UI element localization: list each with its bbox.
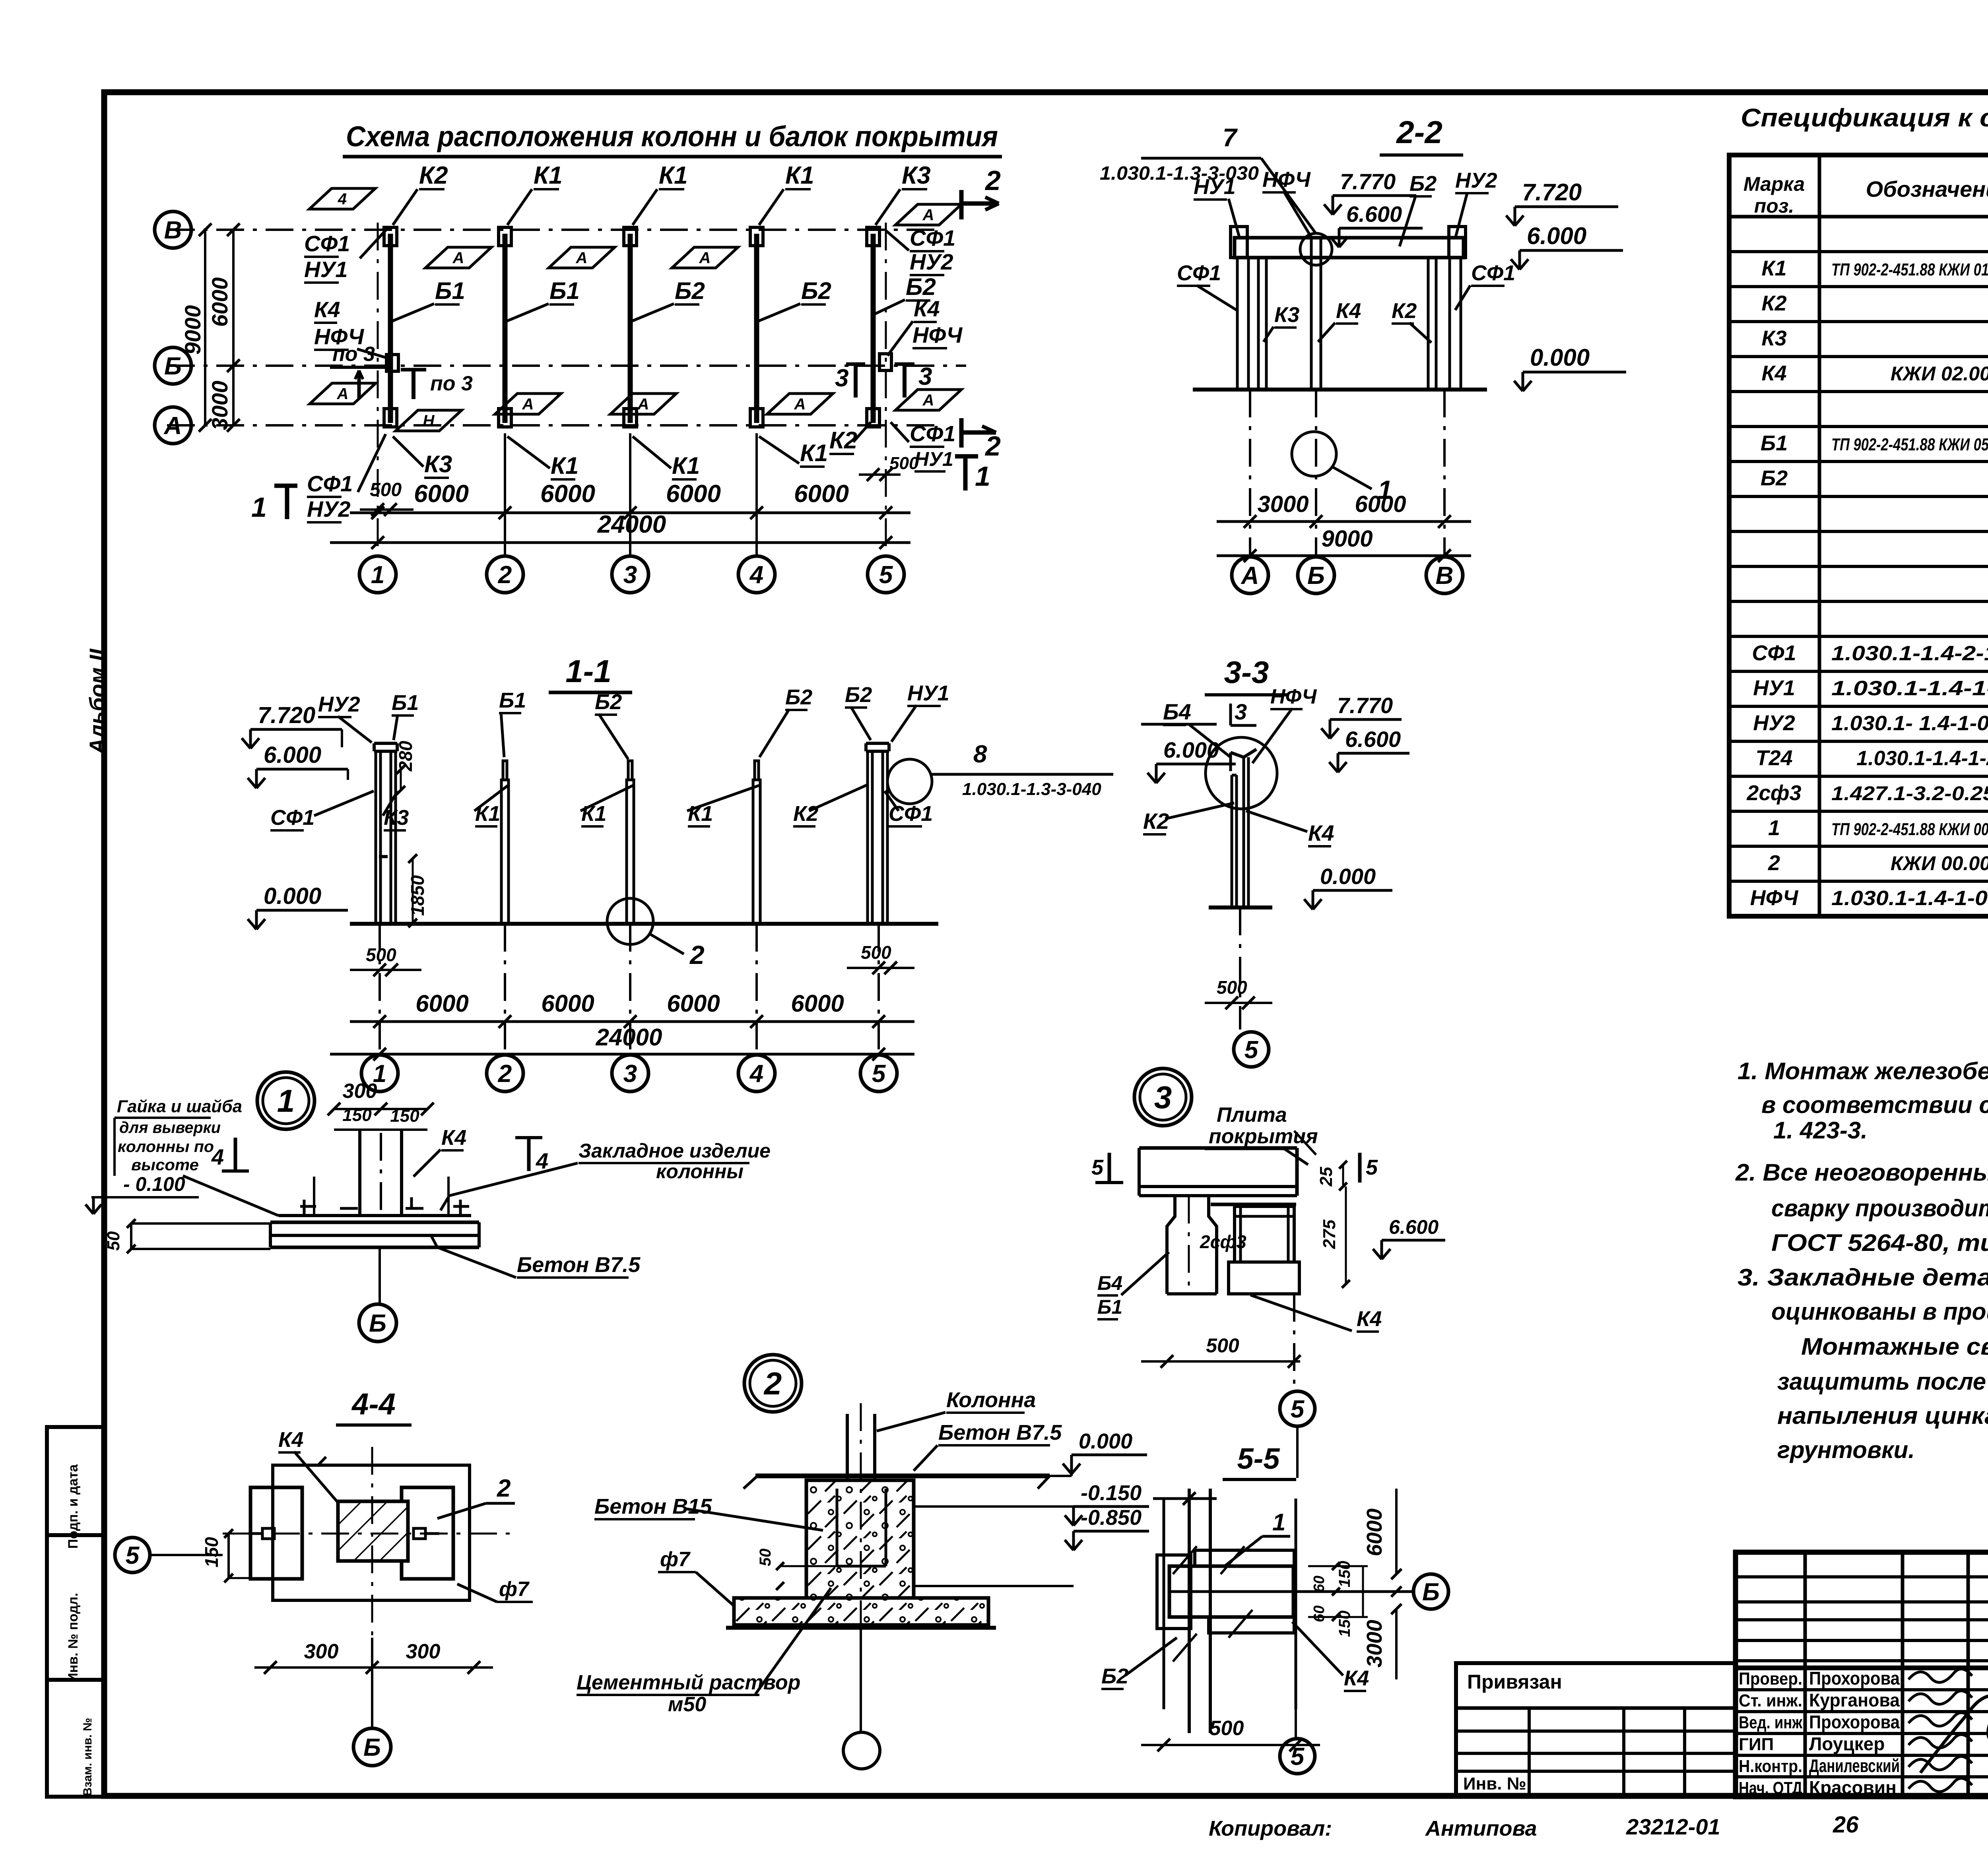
svg-text:150: 150 [201, 1537, 222, 1567]
svg-text:НУ1: НУ1 [304, 257, 348, 282]
svg-text:К3: К3 [1761, 326, 1786, 350]
svg-text:Н.контр.: Н.контр. [1739, 1757, 1802, 1776]
detail 2 level -0.850 [914, 1506, 1149, 1586]
svg-text:А: А [163, 412, 182, 440]
svg-text:К1: К1 [672, 452, 700, 479]
spec row К4 [1761, 361, 1988, 385]
detail 3 centerline down [1293, 1294, 1295, 1390]
svg-text:НФЧ: НФЧ [912, 322, 963, 347]
svg-text:Б1: Б1 [1097, 1296, 1122, 1318]
section 2-2 centerline Б [1315, 390, 1317, 556]
svg-text:6000: 6000 [207, 277, 232, 327]
svg-text:Красовин: Красовин [1809, 1777, 1897, 1798]
section 1-1 label Б1 a [392, 691, 419, 740]
spec table grid [1729, 155, 1988, 916]
spec row К1 [1761, 256, 1988, 280]
svg-text:3: 3 [918, 363, 932, 390]
svg-text:Б4: Б4 [1097, 1272, 1122, 1294]
notes line 12 [1777, 1437, 1915, 1463]
svg-text:300: 300 [406, 1640, 441, 1663]
notes line 10 [1777, 1368, 1988, 1395]
plan label beam Б2 axis 4 [758, 277, 831, 321]
svg-text:Привязан: Привязан [1467, 1671, 1562, 1693]
svg-text:СФ1: СФ1 [910, 421, 955, 446]
svg-text:500: 500 [889, 454, 919, 473]
svg-text:К4: К4 [1336, 299, 1361, 323]
detail 4-4 outer rect [273, 1457, 470, 1600]
spec row Б2 [1761, 466, 1988, 490]
svg-text:26: 26 [1833, 1812, 1859, 1838]
section 1-1 centerline axis 5 [878, 924, 880, 1049]
svg-text:НУ1: НУ1 [914, 448, 953, 470]
detail 3 dim 25 [1316, 1161, 1347, 1190]
plan column К4 at Б axis1 [386, 355, 398, 371]
detail 5-5 dim 6000 [1363, 1489, 1402, 1579]
svg-text:7.720: 7.720 [258, 702, 315, 728]
plan label К3 top axis 5 [876, 162, 931, 225]
svg-text:6000: 6000 [667, 990, 720, 1017]
svg-text:К1: К1 [475, 802, 500, 826]
section 1-1 label Б2 a [595, 690, 628, 759]
detail 4-4 dim 300 300 [254, 1640, 493, 1674]
svg-text:Т24: Т24 [1755, 746, 1792, 770]
svg-text:Б2: Б2 [595, 690, 622, 714]
svg-text:1: 1 [371, 561, 384, 589]
svg-text:1-1: 1-1 [565, 653, 612, 689]
section 2-2 label НФЧ [1262, 168, 1312, 238]
section 1-1 label К1 c [687, 785, 760, 826]
svg-text:НУ2: НУ2 [318, 692, 360, 716]
svg-text:4: 4 [749, 561, 763, 589]
section 2-2 label К4 [1318, 299, 1361, 342]
svg-text:6000: 6000 [540, 480, 595, 508]
spec table title [1741, 103, 1988, 161]
svg-text:НУ1: НУ1 [1194, 175, 1236, 199]
plan weld mark at 1618 [610, 394, 676, 414]
svg-text:2сф3: 2сф3 [1746, 781, 1801, 805]
svg-text:А: А [699, 249, 711, 267]
section 1-1 level 0.000 [248, 883, 348, 929]
plan label СФ1/НУ2 bottom-left [307, 434, 386, 522]
section 1-1 axis circle 3 [612, 1055, 648, 1092]
section 2-2 label К3 [1264, 303, 1299, 342]
section 2-2 axis circle Б [1298, 557, 1334, 593]
svg-text:Бетон В7.5: Бетон В7.5 [938, 1421, 1062, 1444]
plan label К1 bottom axis 3 [633, 436, 700, 479]
section 1-1 centerline axis 3 [629, 924, 631, 1049]
svg-text:Б: Б [363, 1734, 381, 1761]
copied by line [1209, 1812, 1988, 1840]
plan section mark 3 left axis5 [835, 364, 865, 397]
svg-text:7: 7 [1223, 123, 1238, 152]
svg-text:2: 2 [984, 430, 1001, 461]
plan axis centerline 5 [885, 223, 887, 556]
svg-text:сварку производить электрода: сварку производить электродами типа Э-42… [1771, 1195, 1988, 1222]
svg-text:К3: К3 [902, 162, 931, 189]
detail 4-4 circle 5 [115, 1538, 223, 1572]
svg-text:6000: 6000 [1355, 491, 1406, 517]
plan axis circle 3 [612, 556, 648, 593]
section 3-3 level 6.600 [1329, 727, 1409, 772]
detail 3 section mark 5 right [1360, 1153, 1378, 1183]
svg-text:СФ1: СФ1 [304, 231, 350, 256]
section 1-1 label СФ1 left [270, 791, 374, 830]
svg-text:Нач. ОТД: Нач. ОТД [1739, 1778, 1802, 1798]
svg-text:Обозначение: Обозначение [1866, 176, 1988, 202]
svg-text:НФЧ: НФЧ [1270, 685, 1317, 708]
svg-text:1: 1 [975, 461, 990, 492]
section 1-1 dim 500 left [350, 944, 421, 976]
detail 1 marker circle [257, 1072, 315, 1129]
section 1-1 label НУ1 [891, 681, 949, 742]
section 1-1 centerline axis 2 [504, 924, 506, 1049]
svg-text:Спецификация к схеме распол: Спецификация к схеме расположения колонн… [1741, 103, 1988, 132]
svg-text:Плита: Плита [1217, 1103, 1287, 1127]
svg-text:1.427.1-3.2-0.25.0-02: 1.427.1-3.2-0.25.0-02 [1831, 782, 1988, 805]
section 1-1 title [549, 653, 632, 692]
detail 1 label Закладное изделие [441, 1140, 771, 1210]
bottom-left filing stamp [47, 1427, 104, 1797]
svg-text:1.030.1-1.4-1- 020: 1.030.1-1.4-1- 020 [1831, 677, 1988, 700]
detail 3 marker circle [1134, 1068, 1192, 1126]
svg-text:60: 60 [1311, 1605, 1328, 1622]
svg-text:0.000: 0.000 [264, 883, 321, 909]
svg-text:НУ1: НУ1 [1753, 676, 1795, 700]
svg-text:НФЧ: НФЧ [1262, 168, 1311, 192]
section 1-1 centerline axis 4 [755, 924, 758, 1049]
svg-text:в соответствии со СНиП III-1: в соответствии со СНиП III-16-80, указан… [1761, 1092, 1988, 1118]
svg-text:К1: К1 [534, 162, 563, 189]
svg-text:А: А [522, 396, 534, 413]
detail 4-4 label ф7 [457, 1578, 533, 1602]
detail 5-5 label Б2 [1101, 1638, 1177, 1689]
svg-text:Схема расположения колонн и: Схема расположения колонн и балок покрыт… [346, 121, 998, 153]
plan label СФ1/НУ1 bottom-right [891, 421, 955, 471]
svg-text:Н: Н [423, 412, 435, 430]
svg-text:для выверки: для выверки [119, 1119, 221, 1136]
plan label СФ1/НУ2 top-right [886, 225, 955, 275]
svg-text:К2: К2 [1761, 291, 1786, 315]
detail 2 floor line [744, 1476, 1050, 1489]
section 1-1 detail 8 [887, 741, 1113, 804]
svg-text:К4: К4 [1344, 1666, 1369, 1690]
section 3-3 level 7.770 [1321, 693, 1402, 739]
section 2-2 detail circle top [1300, 233, 1332, 265]
svg-text:К4: К4 [1761, 361, 1786, 385]
svg-text:6000: 6000 [794, 480, 849, 508]
section 3-3 ground line [1209, 905, 1272, 909]
plan beam Б1 at axis 1 [388, 234, 393, 423]
plan column top at axis 2 [499, 227, 511, 246]
svg-text:6000: 6000 [541, 990, 594, 1017]
svg-text:Б1: Б1 [549, 277, 580, 304]
svg-text:500: 500 [1209, 1717, 1244, 1740]
section 2-2 column К4 [1311, 238, 1321, 390]
section 2-2 detail circle 1 [1292, 432, 1392, 504]
plan left dimensions 9000/6000/3000 [180, 223, 240, 432]
svg-text:по 3: по 3 [430, 372, 473, 395]
detail 1 label Бетон В7.5 [431, 1236, 641, 1278]
svg-text:275: 275 [1320, 1220, 1339, 1249]
plan axis line 2 [504, 433, 506, 556]
svg-text:ф7: ф7 [499, 1578, 530, 1601]
detail 3 level 6.600 [1373, 1216, 1445, 1259]
svg-text:К4: К4 [314, 297, 340, 322]
title block attachment table [1456, 1663, 1736, 1797]
plan section mark 3 right axis5 [895, 363, 932, 397]
section 2-2 dim 3000/6000 [1217, 491, 1471, 528]
svg-text:А: А [922, 206, 934, 224]
plan axis circle 4 [738, 556, 775, 593]
section 2-2 title [1380, 114, 1463, 155]
svg-text:А: А [337, 385, 349, 403]
plan label СФ1/НУ1 top-left [304, 228, 388, 283]
detail 2 inner pocket [837, 1489, 886, 1566]
svg-text:6.600: 6.600 [1389, 1216, 1439, 1238]
plan weld mark at 2335 [895, 204, 961, 225]
svg-text:высоте: высоте [131, 1156, 199, 1174]
title block staff names [1739, 1668, 1900, 1798]
notes line 9 [1801, 1333, 1988, 1360]
section 1-1 detail 2 circle [607, 898, 705, 969]
detail 5-5 label 1 [1225, 1509, 1290, 1566]
plan label К1 top axis 3 [633, 162, 688, 225]
detail 2 label Бетон В15 [594, 1495, 823, 1530]
detail 4-4 centerlines [223, 1447, 513, 1638]
section 1-1 dim row 6000 [350, 990, 914, 1028]
plan beam Б1 at axis 2 [503, 234, 508, 423]
section 1-1 column К1 axis 2 [501, 761, 509, 924]
section 2-2 label СФ1 left [1177, 261, 1237, 310]
detail 1 level -0.100 [85, 1173, 199, 1214]
svg-text:Прохорова: Прохорова [1809, 1712, 1900, 1732]
detail 2 label ф7 [658, 1548, 734, 1606]
detail 5-5 label К4 [1292, 1622, 1369, 1691]
svg-text:24000: 24000 [597, 511, 666, 538]
svg-text:3000: 3000 [1257, 491, 1309, 517]
svg-text:50: 50 [104, 1231, 123, 1251]
detail 5-5 dims 150 60 [1308, 1561, 1368, 1637]
section 1-1 level 7.720 [242, 702, 342, 748]
svg-text:К1: К1 [551, 452, 579, 479]
svg-text:5-5: 5-5 [1237, 1442, 1281, 1475]
section 2-2 ref 7 label [1100, 123, 1316, 234]
svg-text:300: 300 [343, 1080, 377, 1103]
svg-text:3: 3 [1154, 1080, 1172, 1115]
plan section mark 1 left [251, 486, 297, 523]
section 1-1 label Б1 b [499, 688, 526, 757]
title block Инв No [1463, 1774, 1526, 1794]
detail 4-4 label К4 [278, 1428, 338, 1503]
plan beam Б2 at axis 5 [871, 234, 876, 423]
svg-text:-0.850: -0.850 [1081, 1506, 1142, 1530]
section 3-3 label Б4 [1141, 699, 1231, 757]
svg-text:2: 2 [498, 1060, 512, 1088]
svg-text:150: 150 [342, 1105, 372, 1125]
section 1-1 label К1 a [474, 785, 509, 826]
section 2-2 dim 9000 [1217, 526, 1471, 562]
notes line 6 [1771, 1229, 1988, 1256]
svg-text:Б1: Б1 [392, 691, 419, 715]
plan axis line А [167, 424, 938, 427]
section 2-2 axis circle А [1232, 557, 1268, 593]
detail 5-5 circle 5 top [1280, 1391, 1315, 1478]
plan axis circle 1 [359, 556, 396, 593]
section 3-3 title [1205, 655, 1288, 695]
svg-text:ГОСТ 5264-80, тип сварки Т1: ГОСТ 5264-80, тип сварки Т1, Т3 и Н1. [1771, 1229, 1988, 1256]
svg-text:6000: 6000 [415, 990, 468, 1017]
svg-text:К1: К1 [785, 162, 814, 189]
detail 2 centerline + circle [843, 1403, 880, 1769]
title block outline [1736, 1552, 1988, 1797]
svg-text:Б: Б [1307, 562, 1325, 589]
svg-text:500: 500 [366, 944, 396, 965]
section 1-1 label Б2 c [845, 683, 872, 740]
plan label К1 top axis 2 [507, 162, 563, 225]
section 2-2 ground line [1193, 388, 1487, 392]
spec row НУ2 [1753, 711, 1988, 735]
svg-text:В: В [1436, 562, 1454, 589]
svg-text:КЖИ 00.00.00.02: КЖИ 00.00.00.02 [1891, 852, 1988, 874]
svg-text:1. Монтаж железобетонных ко: 1. Монтаж железобетонных конструкций осу… [1738, 1058, 1988, 1084]
svg-text:5: 5 [1291, 1743, 1305, 1770]
section 1-1 label К3 [383, 791, 409, 830]
svg-text:4: 4 [749, 1060, 763, 1088]
plan label по3 left [330, 343, 388, 399]
section 1-1 label К1 b [580, 785, 634, 826]
svg-text:6.000: 6.000 [1527, 223, 1586, 249]
detail 3 column К4 section [1229, 1206, 1299, 1294]
svg-text:Б1: Б1 [435, 277, 465, 304]
section 3-3 centerline [1239, 907, 1241, 1030]
svg-text:1.030.1-1.4-1-010-03: 1.030.1-1.4-1-010-03 [1831, 887, 1988, 910]
svg-text:покрытия: покрытия [1209, 1125, 1318, 1148]
svg-text:5: 5 [879, 561, 893, 589]
svg-text:Провер.: Провер. [1739, 1669, 1802, 1689]
svg-text:Монтажные сварные швы соедин: Монтажные сварные швы соединений констру… [1801, 1333, 1988, 1360]
detail 4-4 label 2 [437, 1475, 515, 1518]
detail 2 label Цементный раствор [577, 1588, 831, 1716]
svg-text:0.000: 0.000 [1079, 1429, 1132, 1453]
svg-text:КЖИ 02.00.00.00: КЖИ 02.00.00.00 [1891, 363, 1988, 385]
plan axis line 4 [755, 433, 758, 556]
plan column bottom at axis 3 [624, 409, 637, 427]
plan axis centerline 1 [377, 223, 379, 556]
svg-text:0.000: 0.000 [1320, 864, 1376, 889]
detail 3 dim 500 [1141, 1334, 1301, 1368]
notes line 11 [1777, 1402, 1988, 1429]
notes line 4 [1735, 1159, 1988, 1186]
plan label К3 bottom axis 1 [393, 436, 452, 478]
plan axis line Б [167, 365, 966, 367]
svg-text:НУ2: НУ2 [1753, 711, 1795, 735]
plan weld mark at 862 [310, 383, 376, 404]
svg-text:1: 1 [277, 1083, 295, 1119]
svg-text:К3: К3 [1274, 303, 1299, 327]
svg-text:Вед. инж: Вед. инж [1739, 1713, 1803, 1732]
svg-text:Прохорова: Прохорова [1809, 1668, 1900, 1689]
plan axis circle А [155, 407, 191, 444]
svg-text:К2: К2 [1143, 809, 1169, 834]
svg-text:500: 500 [370, 479, 402, 500]
svg-text:Взам. инв. №: Взам. инв. № [81, 1718, 94, 1796]
section 2-2 post СФ1 right [1450, 258, 1461, 390]
svg-text:колонны: колонны [656, 1160, 744, 1183]
svg-text:Б2: Б2 [1761, 466, 1788, 490]
svg-text:3: 3 [1235, 699, 1247, 724]
plan section mark 2 bottom [961, 418, 1001, 461]
svg-text:4: 4 [211, 1144, 224, 1169]
detail 2 column [847, 1414, 875, 1586]
plan column bottom at axis 4 [750, 409, 763, 427]
svg-text:Б2: Б2 [1409, 172, 1437, 196]
plan section mark 2 top [961, 165, 1001, 219]
svg-text:2: 2 [497, 1475, 511, 1502]
svg-text:5: 5 [1366, 1156, 1378, 1179]
svg-text:9000: 9000 [180, 305, 205, 355]
svg-text:5: 5 [1244, 1036, 1259, 1064]
detail 3 dim 275 [1320, 1187, 1350, 1288]
plan weld mark at 2335 [895, 390, 961, 410]
section 3-3 level 0.000 [1304, 864, 1392, 909]
section 1-1 stack СФ1/К2 axis 5 [866, 743, 889, 924]
detail 4-4 title [336, 1387, 412, 1425]
svg-text:Цементный раствор: Цементный раствор [577, 1671, 800, 1694]
section 2-2 label К2 [1392, 299, 1431, 343]
svg-text:5: 5 [1091, 1156, 1104, 1179]
svg-text:1: 1 [1272, 1509, 1285, 1536]
svg-text:колонны по: колонны по [118, 1138, 214, 1156]
section 1-1 column К1 axis 4 [753, 761, 760, 924]
plan label К4/НФЧ right [887, 296, 963, 356]
svg-text:2. Все неоговоренные монта: 2. Все неоговоренные монтажные швы прини… [1735, 1159, 1988, 1186]
svg-text:поз.: поз. [1754, 195, 1794, 217]
spec row 1 [1768, 816, 1988, 840]
svg-text:НУ2: НУ2 [910, 249, 953, 274]
section 1-1 axis circle 4 [738, 1055, 775, 1092]
svg-text:Антипова: Антипова [1425, 1817, 1537, 1840]
svg-text:К2: К2 [419, 162, 448, 189]
svg-text:2: 2 [984, 165, 1001, 196]
plan weld mark at 861 [309, 188, 375, 209]
section 1-1 label СФ1 right [885, 791, 933, 826]
notes line 2 [1761, 1092, 1988, 1118]
svg-text:2: 2 [763, 1366, 782, 1401]
svg-text:ТП 902-2-451.88 КЖИ 05.00.00.0: ТП 902-2-451.88 КЖИ 05.00.00.00 [1831, 435, 1988, 454]
svg-text:1.030.1- 1.4-1-020-01: 1.030.1- 1.4-1-020-01 [1831, 712, 1988, 735]
section 2-2 label Б2 [1400, 172, 1437, 246]
svg-text:Инв. №: Инв. № [1463, 1774, 1526, 1794]
svg-text:ТП 902-2-451.88 КЖИ 00.00.00.0: ТП 902-2-451.88 КЖИ 00.00.00.01 [1831, 820, 1988, 839]
svg-text:7.770: 7.770 [1337, 693, 1393, 718]
section 1-1 label Б2 b [759, 685, 812, 757]
svg-text:Б: Б [164, 353, 182, 380]
svg-text:К4: К4 [1357, 1307, 1382, 1331]
section 2-2 level 0.000 [1514, 344, 1626, 391]
detail 5-5 circle 5 bottom [1280, 1709, 1315, 1774]
svg-text:ГИП: ГИП [1739, 1735, 1774, 1754]
svg-text:0.000: 0.000 [1530, 344, 1590, 371]
svg-text:1.030.1-1.4-2-10-03: 1.030.1-1.4-2-10-03 [1831, 642, 1988, 665]
plan weld mark at 1153 [425, 247, 491, 268]
svg-text:Копировал:: Копировал: [1209, 1817, 1332, 1840]
section 2-2 column К2 [1428, 258, 1436, 390]
detail 3 label Плита покрытия [1205, 1103, 1318, 1165]
plan label К2 bottom axis 5 [829, 422, 871, 454]
detail 5-5 dim 3000 [1363, 1604, 1402, 1679]
spec row Т24 [1755, 746, 1988, 770]
detail 1 axis circle Б [359, 1133, 396, 1342]
